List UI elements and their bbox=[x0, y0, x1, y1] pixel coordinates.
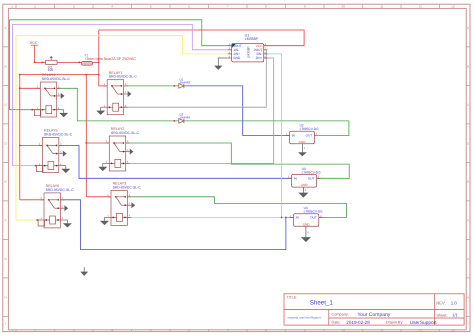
svg-text:OUT: OUT bbox=[308, 177, 315, 181]
ground below-left of RELAY1 bbox=[101, 107, 104, 110]
wire gray relay1 pin4 to U1 2OUT bbox=[124, 50, 267, 107]
svg-text:100: 100 bbox=[48, 68, 54, 72]
relay RELAY4 bbox=[32, 73, 70, 117]
ground (side) at RELAY4 pin5 bbox=[61, 93, 65, 99]
ground (side) at RELAY3 pin5 bbox=[131, 202, 135, 208]
svg-text:1: 1 bbox=[11, 328, 13, 332]
svg-text:9: 9 bbox=[304, 5, 306, 9]
svg-text:1.0: 1.0 bbox=[451, 300, 458, 305]
svg-text:2019-02-28: 2019-02-28 bbox=[346, 320, 370, 325]
svg-text:13: 13 bbox=[451, 328, 455, 332]
svg-text:SRD-05VDC-SL-C: SRD-05VDC-SL-C bbox=[44, 133, 73, 137]
svg-text:F: F bbox=[5, 218, 7, 222]
svg-text:GND: GND bbox=[301, 183, 309, 187]
svg-text:TITLE:: TITLE: bbox=[287, 295, 297, 299]
ground below U3 bbox=[302, 187, 304, 193]
svg-text:7: 7 bbox=[227, 5, 229, 9]
svg-text:LM358P: LM358P bbox=[247, 46, 251, 58]
svg-text:B: B bbox=[5, 64, 7, 68]
svg-text:L7805CV-DG: L7805CV-DG bbox=[304, 210, 323, 214]
wire red relay6 pin2 feed bbox=[20, 199, 44, 201]
wire red relay4 pin2 feed bbox=[20, 87, 41, 89]
svg-text:Your Company: Your Company bbox=[357, 312, 390, 318]
svg-text:I: I bbox=[468, 321, 469, 325]
svg-text:6: 6 bbox=[188, 5, 190, 9]
svg-text:2IN+: 2IN+ bbox=[256, 56, 263, 60]
ground (side) at RELAY1 pin5 bbox=[128, 91, 132, 97]
ground (side) at RELAY6 pin5 bbox=[64, 205, 68, 211]
svg-text:Company:: Company: bbox=[332, 312, 349, 316]
wire red relay5 pin2 feed bbox=[20, 144, 43, 146]
svg-text:8: 8 bbox=[265, 5, 267, 9]
svg-text:GND: GND bbox=[303, 222, 311, 226]
svg-text:7: 7 bbox=[227, 328, 229, 332]
svg-text:11: 11 bbox=[380, 328, 384, 332]
diode D2 1N4448 bbox=[179, 112, 191, 123]
svg-text:SRD-05VDC-SL-C: SRD-05VDC-SL-C bbox=[42, 77, 71, 81]
wire green relay2 pin3 to U3 OUT loop bbox=[126, 143, 350, 178]
svg-text:Sheet:: Sheet: bbox=[436, 313, 447, 317]
relay RELAY5 bbox=[34, 129, 72, 173]
wire green relay1 pin3 to D1 anode bbox=[124, 85, 179, 87]
svg-text:LM358P: LM358P bbox=[245, 37, 259, 41]
ground below-right of RELAY6 bbox=[64, 220, 67, 223]
wire gray relay2 pin4 to U1 2IN+ bbox=[126, 58, 274, 163]
svg-text:8: 8 bbox=[265, 328, 267, 332]
svg-text:5: 5 bbox=[150, 328, 152, 332]
svg-text:I: I bbox=[5, 321, 6, 325]
ground below U2 bbox=[301, 144, 303, 153]
wire red middle trunk x=86.3 bbox=[85, 75, 87, 197]
wire yellow loop relay6 pin1 to U1 1IN+ bbox=[16, 36, 232, 220]
svg-text:13: 13 bbox=[451, 5, 455, 9]
VCC power symbol bbox=[30, 41, 39, 62]
wire purple loop relay5 pin1 to U1 1IN- bbox=[13, 24, 232, 165]
svg-text:9: 9 bbox=[304, 328, 306, 332]
fuse F1 bbox=[81, 53, 136, 65]
svg-text:2: 2 bbox=[34, 5, 36, 9]
relay RELAY6 bbox=[36, 184, 74, 228]
svg-text:Omm tube fuse2A 3F 250VAC: Omm tube fuse2A 3F 250VAC bbox=[85, 57, 136, 61]
wire blue relay5 pin3 to U3 IN bbox=[59, 145, 292, 178]
resistor R1 100 bbox=[46, 56, 57, 72]
ground below U1 bbox=[218, 58, 228, 66]
svg-text:SRD-05VDC-SL-C: SRD-05VDC-SL-C bbox=[113, 185, 142, 189]
wire red vertical trunk at x=98.8 bbox=[98, 30, 100, 86]
wire VCC main horizontal red bbox=[35, 61, 99, 63]
wire red horizontal y=74.6 bbox=[20, 74, 99, 76]
svg-text:1N4448: 1N4448 bbox=[180, 81, 191, 85]
voltage regulator U2 L7805CV-DG bbox=[286, 124, 319, 151]
wire green relay4 pin3 to D2 anode bbox=[57, 88, 179, 121]
svg-text:11: 11 bbox=[380, 5, 384, 9]
relay RELAY3 bbox=[107, 182, 141, 226]
wire red relay1 pin2 feed bbox=[99, 85, 107, 87]
wire red top loop to U1 VCC bbox=[99, 30, 304, 46]
ground below-left of RELAY3 bbox=[105, 217, 108, 220]
svg-text:IN: IN bbox=[292, 134, 295, 138]
op-amp U1 LM358P bbox=[228, 33, 268, 62]
svg-text:B: B bbox=[467, 64, 469, 68]
relay RELAY1 bbox=[103, 71, 137, 115]
ground (side) at RELAY2 pin5 bbox=[130, 149, 134, 155]
svg-text:GND: GND bbox=[233, 56, 241, 60]
svg-text:IN: IN bbox=[294, 177, 297, 181]
wire red relay3 pin2 feed bbox=[86, 196, 111, 198]
wire green loop relay4 pin1 to U1 1OUT bbox=[10, 20, 232, 110]
lone ground symbol bbox=[83, 267, 85, 271]
wire cyan U1 2IN- to bottom net bbox=[264, 54, 282, 218]
svg-text:12: 12 bbox=[418, 5, 422, 9]
voltage regulator U3 L7805CV-DG bbox=[288, 167, 321, 192]
svg-text:Date:: Date: bbox=[332, 320, 341, 324]
svg-text:6: 6 bbox=[188, 328, 190, 332]
wire junction nodes bbox=[19, 62, 287, 221]
ground below-left of RELAY2 bbox=[103, 163, 106, 166]
svg-text:L7805CV-DG: L7805CV-DG bbox=[300, 127, 319, 131]
svg-text:REV:: REV: bbox=[436, 300, 445, 305]
svg-text:E: E bbox=[467, 180, 469, 184]
svg-text:OUT: OUT bbox=[306, 134, 313, 138]
wire blue D1 cathode to U2 IN bbox=[184, 86, 290, 136]
svg-text:10: 10 bbox=[341, 5, 345, 9]
svg-text:1N4448: 1N4448 bbox=[180, 116, 191, 120]
svg-text:Sheet_1: Sheet_1 bbox=[310, 300, 334, 307]
svg-text:1/1: 1/1 bbox=[452, 312, 458, 317]
svg-text:SRD-05VDC-SL-C: SRD-05VDC-SL-C bbox=[46, 188, 75, 192]
svg-text:12: 12 bbox=[418, 328, 422, 332]
wire cyan relay3 pin4 to U4 IN bbox=[127, 216, 289, 218]
relay RELAY2 bbox=[106, 127, 140, 171]
svg-text:2: 2 bbox=[34, 328, 36, 332]
title block bbox=[284, 294, 464, 325]
svg-text:OUT: OUT bbox=[310, 216, 317, 220]
svg-text:10: 10 bbox=[341, 328, 345, 332]
ground below U4 bbox=[305, 226, 307, 237]
svg-text:5: 5 bbox=[150, 5, 152, 9]
wire red left trunk x=19.8 bbox=[19, 75, 21, 200]
svg-text:IN: IN bbox=[296, 216, 299, 220]
svg-text:3: 3 bbox=[73, 328, 75, 332]
svg-text:Drawn By:: Drawn By: bbox=[386, 320, 404, 324]
wire green relay3 pin3 to U4 OUT loop bbox=[127, 197, 346, 218]
svg-text:VCC: VCC bbox=[30, 41, 38, 45]
svg-text:GND: GND bbox=[299, 140, 307, 144]
svg-text:1: 1 bbox=[11, 5, 13, 9]
wire green D2 cathode to U2 OUT bbox=[184, 121, 349, 136]
svg-text:3: 3 bbox=[73, 5, 75, 9]
ground below-right of RELAY5 bbox=[63, 166, 66, 169]
diode D1 1N4448 bbox=[179, 77, 191, 88]
svg-text:easyeda.com/UserSupport: easyeda.com/UserSupport bbox=[288, 315, 321, 319]
svg-text:SRD-05VDC-SL-C: SRD-05VDC-SL-C bbox=[109, 75, 138, 79]
svg-text:4: 4 bbox=[111, 5, 113, 9]
wire blue relay6 pin3 to U4 IN bbox=[60, 200, 293, 250]
svg-text:E: E bbox=[5, 180, 7, 184]
ground (side) at RELAY5 pin5 bbox=[63, 151, 67, 157]
ground below-right of RELAY4 bbox=[61, 110, 64, 113]
wire red relay2 pin2 feed bbox=[86, 142, 109, 144]
voltage regulator U4 L7805CV-DG bbox=[290, 206, 323, 234]
svg-text:F: F bbox=[467, 218, 469, 222]
svg-text:4: 4 bbox=[111, 328, 113, 332]
svg-text:L7805CV-DG: L7805CV-DG bbox=[302, 171, 321, 175]
svg-text:UserSupport: UserSupport bbox=[410, 320, 438, 326]
svg-text:SRD-05VDC-SL-C: SRD-05VDC-SL-C bbox=[111, 131, 140, 135]
